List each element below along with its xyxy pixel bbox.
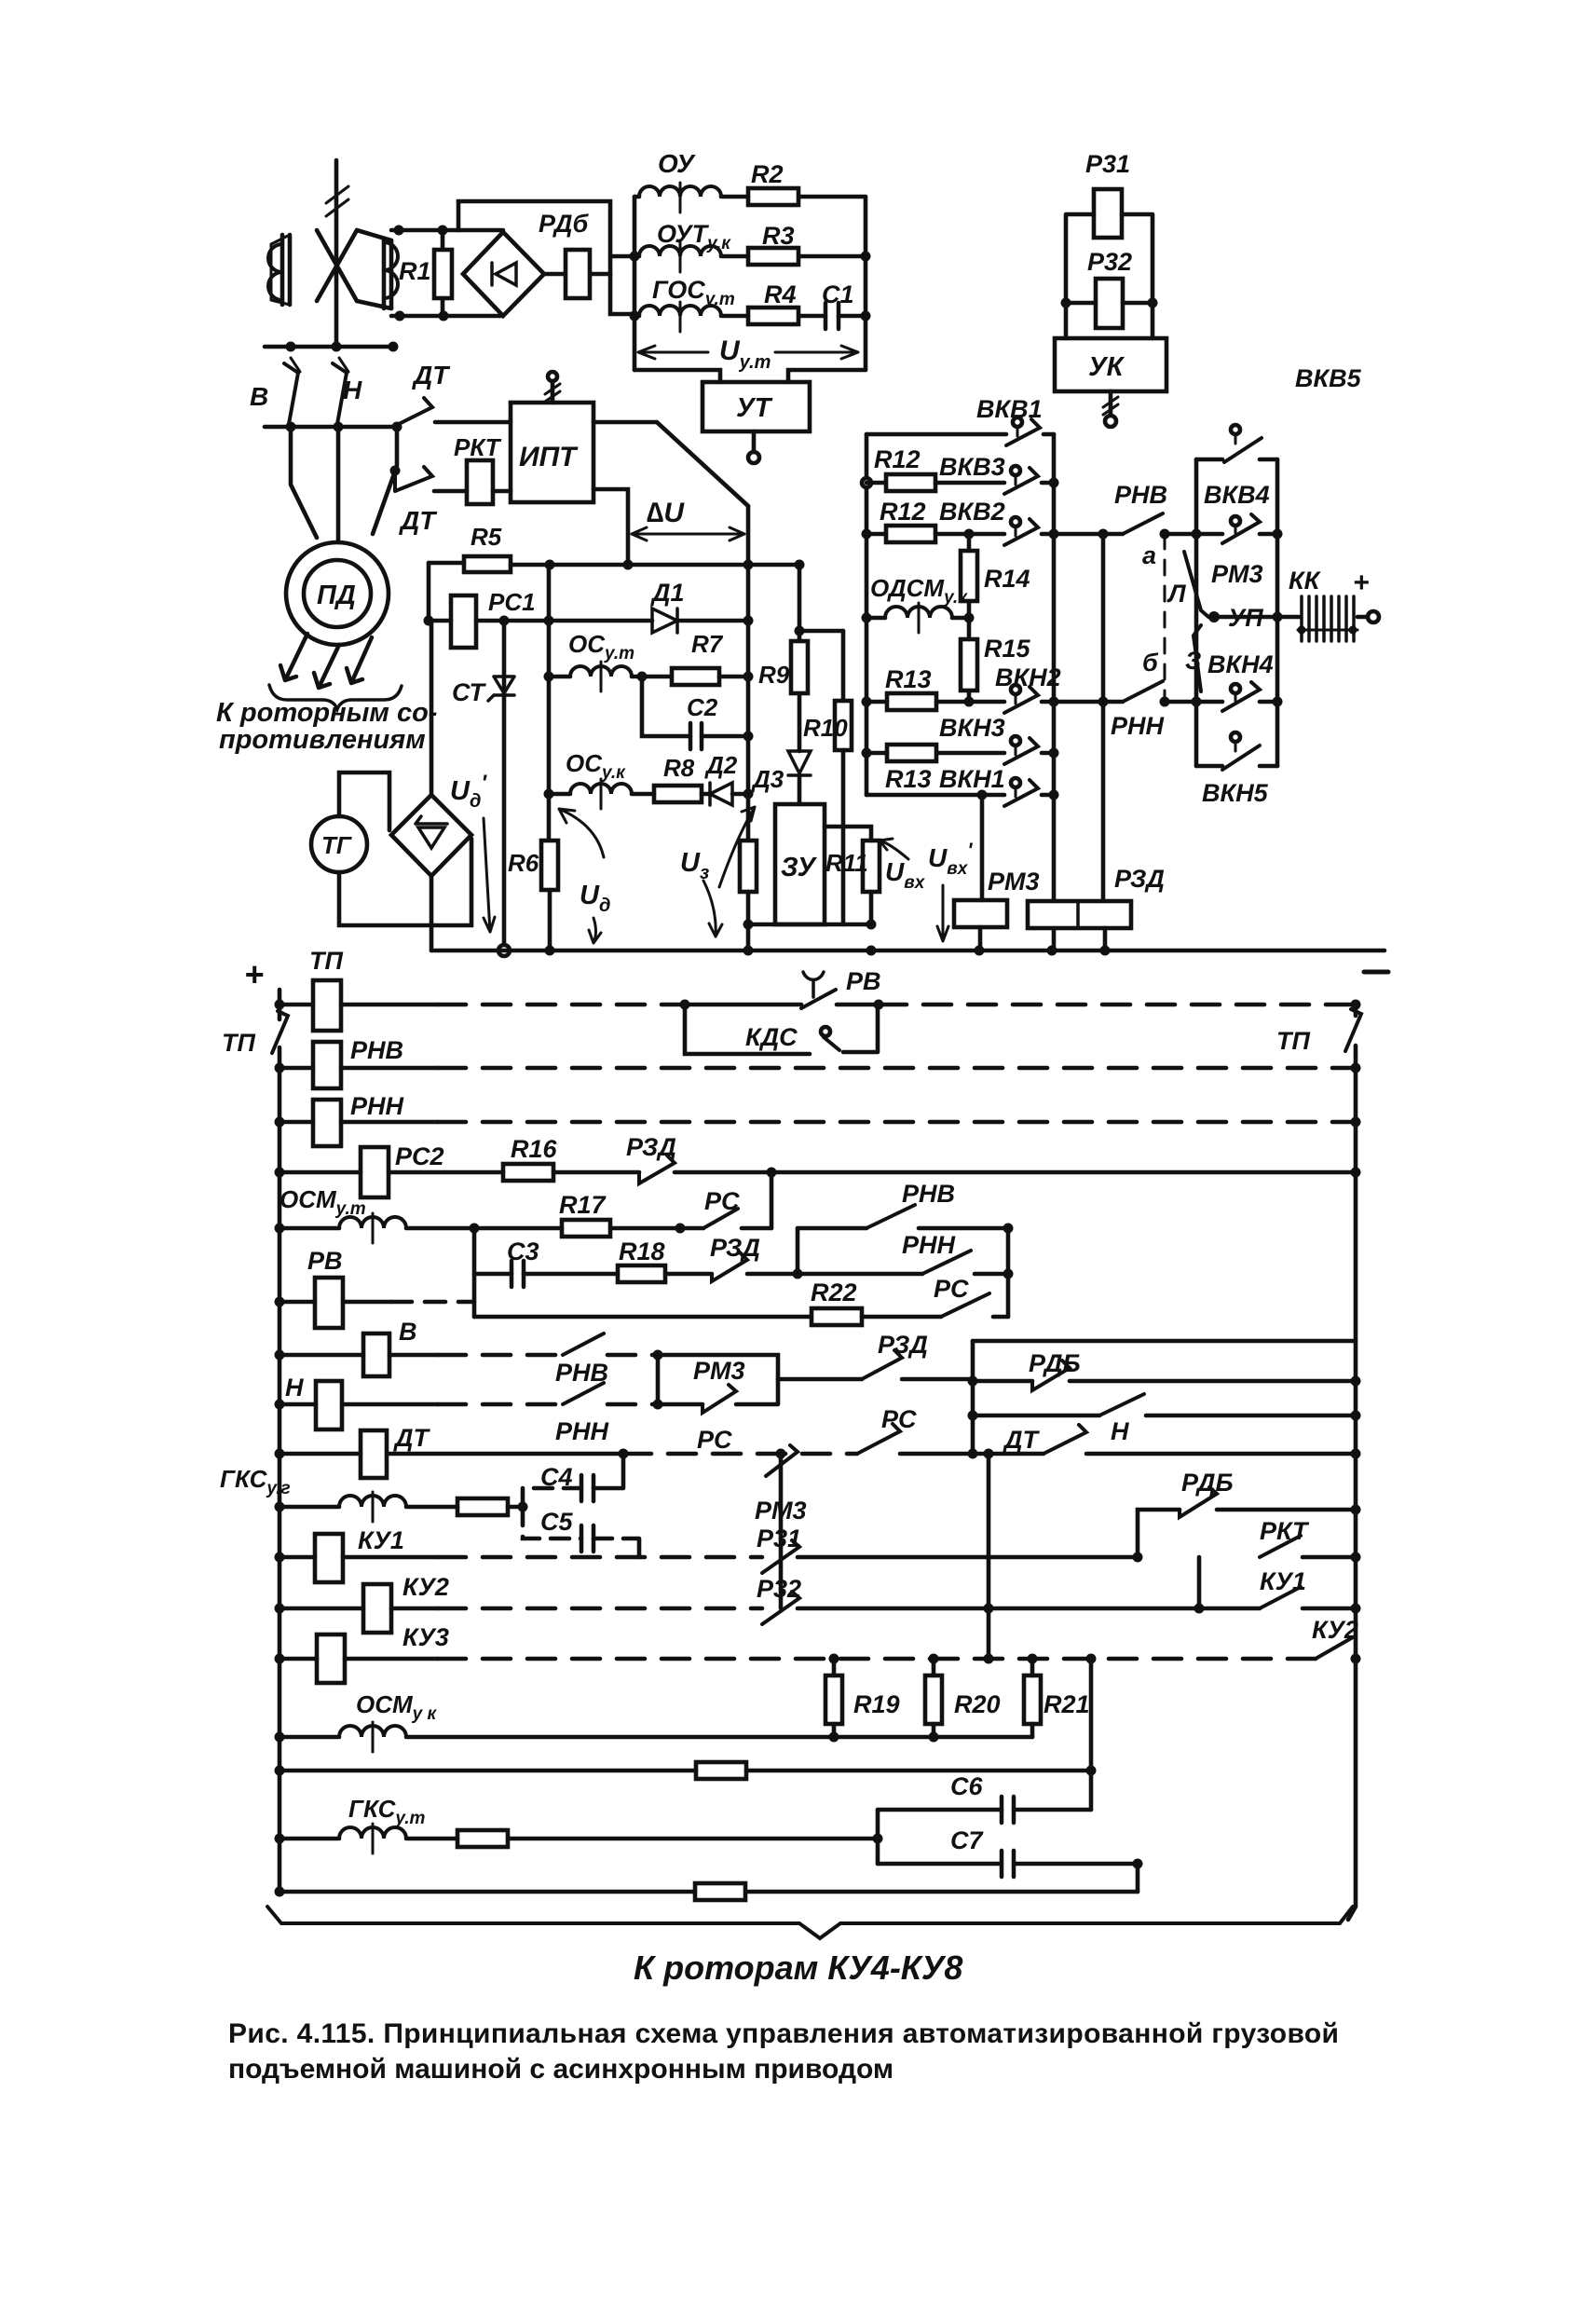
- node dot (929,275): [861, 252, 871, 262]
- node dot (300,1397): [275, 1297, 285, 1307]
- node dot (856,1367): [793, 1269, 803, 1279]
- relay coil РЗД (double): [1028, 901, 1131, 950]
- svg-text:КУ1: КУ1: [1260, 1567, 1306, 1595]
- node dot (1397,676): [1298, 626, 1306, 635]
- svg-text:СТ: СТ: [452, 678, 486, 706]
- node dot (803,666): [743, 616, 754, 626]
- wire row РНН y=753: [1054, 700, 1123, 704]
- node dot (1061,1726): [984, 1604, 994, 1614]
- winding ОСМу.т row y=1318: [280, 1213, 474, 1243]
- stabilitron СТ line: [502, 621, 507, 945]
- label: к роторным сопротивлениям: [216, 698, 437, 755]
- motor ПД: [286, 542, 389, 645]
- relay coil РНН row y=1204: [280, 1100, 438, 1146]
- svg-text:R19: R19: [853, 1690, 900, 1718]
- resistor in РДБ branch: [566, 250, 590, 298]
- node dot УП (1303,662): [1208, 611, 1220, 622]
- node dot (509,1318): [470, 1224, 480, 1234]
- branch КДС: [685, 1005, 878, 1054]
- capacitor С6 branch y=1942: [878, 1797, 1091, 1823]
- node dot (1455,1204): [1351, 1117, 1361, 1128]
- transformer T1 (booster): [268, 230, 398, 308]
- capacitor С2 branch: [642, 677, 748, 749]
- node dot (1455,1726): [1351, 1604, 1361, 1614]
- contact РДБ break (branch): [1180, 1487, 1356, 1517]
- node dot (1082,1318): [1003, 1224, 1014, 1234]
- svg-text:ИПТ: ИПТ: [519, 442, 579, 472]
- node dot (1044,1482): [968, 1376, 978, 1387]
- node dot (300,1560): [275, 1449, 285, 1459]
- node dot (1371,753): [1273, 697, 1283, 707]
- annotation arrow U'д: [484, 818, 495, 932]
- contact З: [1194, 625, 1201, 691]
- relay coil РМ3: [954, 795, 1007, 950]
- node dot (1131,573): [1049, 529, 1059, 540]
- node dot (803,852): [743, 789, 754, 800]
- ladder left rail: [278, 990, 282, 1894]
- contact ДТ1: [397, 398, 432, 425]
- resistor (row 1900): [696, 1762, 1091, 1779]
- node dot (1051,1020): [975, 946, 985, 956]
- node dot (541,666): [499, 616, 510, 626]
- resistor R22 row y=1413: [474, 1308, 941, 1325]
- annotation arrow Uз: [703, 881, 722, 937]
- diode Д1: [549, 609, 748, 633]
- svg-text:ВКН1: ВКН1: [939, 765, 1005, 793]
- tachogenerator ТГ: [311, 816, 367, 872]
- svg-text:ВКВ4: ВКВ4: [1204, 481, 1270, 509]
- svg-text:КУ2: КУ2: [402, 1573, 449, 1601]
- svg-text:ТП: ТП: [309, 947, 343, 975]
- resistor R3: [748, 248, 866, 265]
- relay coil Н row y=1507: [280, 1381, 438, 1429]
- contact РМ3 break (chain): [766, 1445, 798, 1476]
- diode Д2: [710, 783, 748, 805]
- svg-text:R15: R15: [984, 635, 1031, 663]
- node dot (1044,1519): [968, 1411, 978, 1421]
- svg-text:Н: Н: [1111, 1417, 1129, 1445]
- svg-text:+: +: [1353, 567, 1370, 598]
- node dot (803,790): [743, 732, 754, 742]
- contact РНВ: [1123, 513, 1196, 534]
- relay coil В row y=1454: [280, 1333, 438, 1376]
- wire КУ3 row dashed: [438, 1657, 1316, 1661]
- node dot (1186,1020): [1100, 946, 1111, 956]
- node dot (1452,676): [1349, 626, 1357, 635]
- resistor R9: [791, 641, 808, 693]
- node dot (589,726): [544, 672, 554, 682]
- svg-text:РДБ: РДБ: [1029, 1349, 1081, 1377]
- svg-text:ВКН4: ВКН4: [1207, 650, 1274, 678]
- svg-text:R16: R16: [511, 1135, 558, 1163]
- node dot (735,1078): [680, 1000, 690, 1010]
- node dot (1061,1560): [984, 1449, 994, 1459]
- contact ТП (left rail): [272, 1011, 288, 1053]
- svg-text:С2: С2: [687, 693, 718, 721]
- R12 block left rail x=930: [865, 434, 869, 795]
- node dot (1455,1146): [1351, 1063, 1361, 1073]
- svg-text:R17: R17: [559, 1191, 607, 1219]
- node dot (895,1780): [829, 1654, 839, 1664]
- winding ГКСу.т row y=1973: [280, 1824, 457, 1853]
- svg-text:Д3: Д3: [751, 765, 784, 793]
- node dot (300,1078): [275, 1000, 285, 1010]
- node dot (674,606): [623, 560, 634, 570]
- wire КУ2 row dashed: [438, 1607, 762, 1611]
- contact В: [284, 358, 300, 424]
- РМ3 branch frame: [658, 1355, 778, 1404]
- node dot (1250,753): [1160, 697, 1170, 707]
- node dot (1129,1020): [1047, 946, 1057, 956]
- contact ДТ2: [395, 467, 432, 491]
- vertical x=828: [770, 1172, 774, 1228]
- relay coil ДТ row y=1560: [280, 1430, 623, 1478]
- node dot (838,1560): [776, 1449, 786, 1459]
- svg-text:Рис. 4.115. Принципиальная схе: Рис. 4.115. Принципиальная схема управле…: [228, 2018, 1339, 2049]
- svg-text:С7: С7: [950, 1826, 984, 1854]
- node dot (930,753): [862, 697, 872, 707]
- node dot (1131,853): [1049, 790, 1059, 800]
- node dot (1002,1864): [929, 1732, 939, 1743]
- contact РНН sub-row y=1367: [798, 1251, 1008, 1274]
- wire row2 dashed: [438, 1066, 1356, 1071]
- brace under rotor leads: [269, 685, 402, 709]
- bottom bus y=1020: [431, 949, 1385, 953]
- terminal КК: [1357, 611, 1379, 622]
- svg-text:ВКН5: ВКН5: [1202, 779, 1269, 807]
- svg-text:ТП: ТП: [222, 1029, 255, 1057]
- node dot (706,1454): [653, 1350, 663, 1361]
- node dot (1144,325): [1061, 298, 1071, 308]
- rectifier bridge VD (РДБ) diamond: [463, 232, 544, 316]
- wire КУ1 row dashed: [438, 1555, 762, 1560]
- dashed link a-b: [1164, 534, 1166, 702]
- svg-text:РКТ: РКТ: [454, 433, 502, 461]
- terminal circle СТ bottom: [498, 945, 510, 956]
- contact РКТ row y=1671: [1260, 1536, 1356, 1557]
- svg-text:К роторам КУ4-КУ8: К роторам КУ4-КУ8: [634, 1949, 962, 1987]
- resistor R17: [474, 1220, 703, 1237]
- wire row3 dashed: [438, 1120, 1356, 1125]
- contact РС row5: [703, 1209, 771, 1228]
- svg-text:Д2: Д2: [704, 751, 738, 779]
- node dot (930,808): [862, 748, 872, 759]
- resistor РКТ: [467, 460, 511, 504]
- node dot (1287,1726): [1194, 1604, 1205, 1614]
- node dot (300,1146): [275, 1063, 285, 1073]
- contact РЗД break (С3 row): [712, 1252, 798, 1281]
- amplifier block ИПТ: [511, 403, 593, 502]
- wire В row dashed: [438, 1353, 563, 1358]
- node dot (935,992): [866, 920, 877, 930]
- wire Н row dashed: [438, 1402, 563, 1407]
- relay Р31: [1094, 189, 1122, 238]
- node dot (1455,1519): [1351, 1411, 1361, 1421]
- wire: ИПТ out bottom: [593, 489, 628, 565]
- contact КУ1 row y=1726: [1260, 1587, 1356, 1608]
- vertical x=1061: [987, 1454, 991, 1659]
- block УК: [1055, 338, 1166, 391]
- svg-text:R18: R18: [619, 1238, 665, 1265]
- contact РНН (Н row): [563, 1383, 658, 1404]
- wire: РДБ to ОУ loop (y=275): [610, 254, 634, 259]
- resistor R16: [503, 1164, 639, 1181]
- annotation arrow to Д3: [719, 807, 755, 887]
- wire: ДТ1 to ИПТ: [435, 420, 511, 425]
- jog wire to R10: [799, 629, 843, 634]
- svg-text:С6: С6: [950, 1772, 983, 1800]
- node dot (428,247): [394, 226, 404, 236]
- node dot (943,1078): [874, 1000, 884, 1010]
- svg-text:R12: R12: [880, 498, 926, 526]
- node dot (312,458): [286, 422, 296, 432]
- contact РВ (time): [801, 972, 879, 1008]
- svg-text:РВ: РВ: [307, 1247, 343, 1275]
- rotor arrows: [280, 634, 372, 688]
- capacitor С5 branch: [523, 1507, 639, 1557]
- contact ТП (right rail): [1345, 1009, 1361, 1051]
- svg-text:РНН: РНН: [555, 1417, 609, 1445]
- terminal under УТ: [748, 431, 759, 463]
- svg-text:С5: С5: [540, 1508, 573, 1536]
- contact Л: [1184, 552, 1208, 617]
- wire bottom row y=2030: [280, 1890, 695, 1894]
- label − (ladder): [1364, 970, 1388, 975]
- node dot (1171,1780): [1086, 1654, 1097, 1664]
- node dot (1237,325): [1148, 298, 1158, 308]
- node dot (312,372): [286, 342, 296, 352]
- winding ОУ: [634, 183, 748, 212]
- svg-text:В: В: [399, 1318, 417, 1346]
- motor lead right: [373, 427, 397, 534]
- svg-text:КУ1: КУ1: [358, 1526, 404, 1554]
- winding ОУТу.к: [634, 242, 748, 272]
- wire: РДБ right edge down and to ГОС row: [610, 274, 634, 314]
- svg-text:ДТ: ДТ: [399, 506, 438, 535]
- contact ВКВ4 row y=573: [1196, 514, 1277, 543]
- node dot (1131,518): [1049, 478, 1059, 488]
- node dot (1221,1671): [1133, 1552, 1143, 1563]
- relay coil РС2 row y=1258: [280, 1147, 503, 1197]
- node dot (300,1780): [275, 1654, 285, 1664]
- wire: mains feed vertical: [334, 160, 339, 343]
- ВКВ4 block right rail x=1371: [1275, 459, 1280, 766]
- node dot (1131,753): [1049, 697, 1059, 707]
- node dot (858,677): [795, 626, 805, 636]
- contact Р31 break: [762, 1540, 799, 1573]
- svg-text:+: +: [244, 955, 264, 993]
- svg-text:РНВ: РНВ: [902, 1180, 955, 1208]
- contact ВКВ2: [1004, 517, 1054, 545]
- relay coil РНВ row y=1146: [280, 1042, 438, 1088]
- branch РДБ (КУ1 row): [1138, 1510, 1180, 1557]
- svg-text:РС: РС: [934, 1275, 969, 1303]
- svg-text:Н: Н: [285, 1374, 304, 1402]
- capacitor С4 branch: [523, 1454, 623, 1507]
- relay Р32: [1096, 279, 1123, 328]
- svg-text:РВ: РВ: [846, 967, 881, 995]
- rectifier bridge U'д diamond: [391, 795, 471, 876]
- wire row1 to РВ: [685, 1003, 801, 1007]
- svg-text:Н: Н: [343, 376, 362, 404]
- node dot (803,1020): [743, 946, 754, 956]
- resistor R21: [1024, 1659, 1041, 1737]
- bus2 y=458: [265, 425, 397, 430]
- node dot (1044,1560): [968, 1449, 978, 1459]
- relay box РДБ-РКТ top: [973, 1339, 1356, 1344]
- terminal circle (930,518): [862, 478, 871, 487]
- node dot (1250,573): [1160, 529, 1170, 540]
- node dot (1221,2000): [1133, 1859, 1143, 1869]
- block ЗУ: [775, 804, 825, 924]
- contact ВКН3: [1004, 736, 1054, 764]
- wire: ТГ top to rectifier2: [339, 773, 389, 830]
- contact РС/РМ3 break on Н row: [658, 1379, 778, 1413]
- wire row1 dashed: [438, 1003, 685, 1007]
- wire КУ2 row right: [798, 1607, 1260, 1611]
- node dot (561,1617): [518, 1502, 528, 1512]
- node dot (1171,1900): [1086, 1766, 1097, 1776]
- relay box РДБ-РКТ left edge: [971, 1341, 975, 1454]
- svg-text:R13: R13: [885, 665, 932, 693]
- svg-text:R8: R8: [663, 754, 695, 782]
- vertical x=856: [796, 1228, 800, 1274]
- node dot (1455,1258): [1351, 1168, 1361, 1178]
- node dot (300,1973): [275, 1834, 285, 1844]
- svg-text:РМ3: РМ3: [988, 868, 1040, 896]
- node dot (1455,1780): [1351, 1654, 1361, 1664]
- wire: ДТ2 to РКТ resistor: [434, 489, 467, 494]
- svg-text:R22: R22: [811, 1279, 857, 1306]
- resistor R13 row y=753: [866, 693, 1004, 710]
- svg-text:R21: R21: [1044, 1690, 1090, 1718]
- node dot (935,1020): [866, 946, 877, 956]
- contact ВКН5 bottom row y=822: [1196, 732, 1277, 770]
- node dot (1371,573): [1273, 529, 1283, 540]
- svg-text:КУ3: КУ3: [402, 1623, 449, 1651]
- commutator КК comb: [1277, 596, 1357, 641]
- svg-text:ПД: ПД: [317, 581, 356, 610]
- svg-text:R4: R4: [764, 280, 797, 308]
- annotation arrow Uд down: [589, 918, 601, 943]
- annotation double arrow ΔU: [632, 527, 744, 540]
- contact ВКН4 row y=753: [1196, 682, 1277, 711]
- svg-text:ВКВ2: ВКВ2: [939, 498, 1005, 526]
- svg-text:R3: R3: [762, 222, 795, 250]
- node dot (300,1258): [275, 1168, 285, 1178]
- svg-text:РЗД: РЗД: [1114, 865, 1165, 893]
- svg-text:КДС: КДС: [745, 1023, 798, 1051]
- relay coil КУ3 row y=1780: [280, 1634, 438, 1683]
- contact КУ2 row y=1780: [1316, 1637, 1356, 1659]
- node dot (300,1204): [275, 1117, 285, 1128]
- node dot (300,2030): [275, 1887, 285, 1897]
- svg-text:В: В: [250, 382, 268, 411]
- Р31/Р32 loop top: [1066, 214, 1153, 338]
- contact Н row y=1519: [973, 1394, 1356, 1415]
- node dot (669,1560): [619, 1449, 629, 1459]
- svg-text:ТГ: ТГ: [321, 831, 352, 859]
- wire y=325: [1066, 301, 1153, 306]
- resistor R15: [961, 639, 977, 702]
- svg-text:РЗД: РЗД: [710, 1234, 760, 1262]
- ОУ network right rail x=929: [864, 197, 868, 370]
- svg-text:R7: R7: [691, 630, 724, 658]
- resistor R20: [925, 1659, 942, 1737]
- svg-text:R12: R12: [874, 445, 921, 473]
- node dot (460,666): [424, 616, 434, 626]
- svg-text:Л: Л: [1166, 580, 1187, 608]
- contact ВКВ3: [1004, 466, 1054, 494]
- wire: rectifier2 top to rail460: [430, 621, 434, 795]
- svg-text:РНН: РНН: [1111, 712, 1165, 740]
- node dot (942,1973): [873, 1834, 883, 1844]
- node dot (300,1671): [275, 1552, 285, 1563]
- svg-text:РДБ: РДБ: [1181, 1469, 1234, 1497]
- resistor R5: [429, 556, 799, 572]
- relay coil ТП row y=1078: [280, 980, 438, 1031]
- relay coil КУ2 row y=1726: [280, 1584, 438, 1633]
- node dot (300,1900): [275, 1766, 285, 1776]
- node dot (803,726): [743, 672, 754, 682]
- svg-text:ВКН3: ВКН3: [939, 714, 1005, 742]
- node dot (361,372): [332, 342, 342, 352]
- svg-text:РМ3: РМ3: [1211, 560, 1263, 588]
- vertical x=509: [472, 1228, 477, 1317]
- capacitor С3 row y=1367: [474, 1261, 618, 1287]
- svg-text:УК: УК: [1088, 352, 1125, 382]
- ОУ network left rail x=681: [633, 197, 637, 370]
- svg-text:РС2: РС2: [395, 1142, 444, 1170]
- node dot (300,1507): [275, 1400, 285, 1410]
- svg-text:Р31: Р31: [1085, 150, 1130, 178]
- svg-text:КК: КК: [1289, 567, 1322, 595]
- svg-text:УТ: УТ: [736, 393, 773, 423]
- contact РС (R22 row): [941, 1293, 1008, 1317]
- block УТ: [703, 382, 810, 431]
- chain vertical x=838: [779, 1454, 784, 1608]
- svg-text:РНН: РНН: [350, 1092, 404, 1120]
- ВКВ4 block left rail x=1284: [1194, 459, 1199, 766]
- svg-text:РЗД: РЗД: [878, 1331, 928, 1359]
- contact ВКВ5 top row: [1196, 425, 1277, 462]
- node dot (300,1864): [275, 1732, 285, 1743]
- node dot (930,663): [862, 613, 872, 623]
- contact РЗД (to РДБ box): [778, 1350, 973, 1379]
- node dot (475,247): [438, 226, 448, 236]
- svg-text:З: З: [1185, 647, 1201, 675]
- wire: loop bottom y=339: [391, 314, 502, 319]
- vertical x=1171: [1089, 1659, 1094, 1810]
- resistor R7: [642, 668, 748, 685]
- node dot (828,1258): [767, 1168, 777, 1178]
- vertical x=1082: [1006, 1228, 1011, 1317]
- svg-text:R2: R2: [751, 160, 784, 188]
- resistor R8: [654, 786, 710, 802]
- wire РВ row dashed: [391, 1300, 474, 1305]
- node dot (363,458): [334, 422, 344, 432]
- svg-text:Р32: Р32: [757, 1575, 801, 1603]
- node dot (1455,1620): [1351, 1505, 1361, 1515]
- svg-text:R20: R20: [954, 1690, 1001, 1718]
- rail x=460: [427, 563, 431, 621]
- svg-text:УП: УП: [1228, 604, 1263, 632]
- svg-text:К роторным со-: К роторным со-: [216, 698, 437, 728]
- svg-text:б: б: [1142, 649, 1159, 677]
- node dot (300,1617): [275, 1502, 285, 1512]
- ground/arrester on ИПТ: [545, 372, 560, 403]
- contact РНВ sub-row y=1318: [798, 1205, 1008, 1228]
